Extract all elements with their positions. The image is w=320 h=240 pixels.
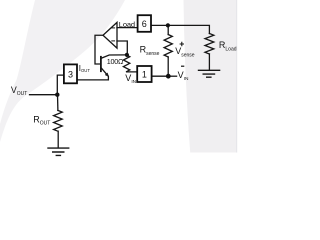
wire Rout bottom to ground bbox=[57, 131, 59, 147]
minus sign (Vsense -) bbox=[181, 65, 184, 67]
svg-text:100Ω: 100Ω bbox=[107, 57, 124, 66]
wire VOUT node down to Rout bbox=[57, 95, 59, 111]
op-amp non-inverting input mark (+) bbox=[112, 40, 115, 42]
plus sign (Vsense +) bbox=[180, 42, 184, 46]
transistor Q1 emitter arrowhead bbox=[105, 73, 109, 77]
svg-text:6: 6 bbox=[142, 19, 147, 29]
wire pin box 1 left to 100 ohm resistor bottom bbox=[127, 71, 138, 73]
wire RLoad bottom to ground bbox=[208, 54, 210, 70]
wire op-amp output to transistor base bbox=[95, 35, 103, 64]
wire Rsense bottom to VIN node bbox=[167, 57, 169, 76]
svg-text:Load: Load bbox=[119, 20, 135, 29]
wire pin box 3 left to VOUT node bbox=[57, 75, 64, 95]
wire op-amp bottom input to summing node bbox=[117, 41, 127, 55]
transistor Q1 collector lead to summing node bbox=[101, 55, 127, 59]
node VOUT bbox=[55, 93, 59, 97]
transistor Q1 emitter lead bbox=[77, 68, 108, 80]
wire VIN node left to pin box 1 bbox=[152, 75, 166, 77]
node: summing junction (collector / 100 ohm / op-amp input) bbox=[125, 53, 129, 57]
wire op-amp top input to pin box 6 bbox=[117, 27, 138, 29]
node VIN bbox=[166, 74, 171, 79]
pin box 6 bbox=[138, 15, 151, 32]
pin box 3 bbox=[64, 64, 77, 83]
resistor Rsense bbox=[164, 35, 172, 58]
ground (RLoad) bbox=[199, 70, 220, 77]
resistor RLoad bbox=[205, 34, 214, 55]
svg-text:1: 1 bbox=[142, 69, 147, 79]
svg-text:3: 3 bbox=[68, 69, 73, 79]
wire VIN node right stub bbox=[168, 75, 176, 77]
resistor Rout bbox=[54, 110, 63, 131]
node: top rail junction bbox=[166, 23, 170, 27]
op-amp inverting input mark (-) bbox=[112, 27, 115, 29]
wire VOUT lead bbox=[30, 94, 58, 96]
transistor Q1 base bar bbox=[100, 57, 102, 71]
pin box 1 bbox=[137, 66, 151, 82]
resistor 100 ohm bbox=[123, 55, 129, 72]
op-amp U1 bbox=[103, 22, 117, 48]
wire top rail stub to Rsense bbox=[167, 25, 169, 34]
wire pin 6 to top rail and RLoad top bbox=[151, 25, 209, 33]
ground (Rout) bbox=[48, 148, 69, 155]
